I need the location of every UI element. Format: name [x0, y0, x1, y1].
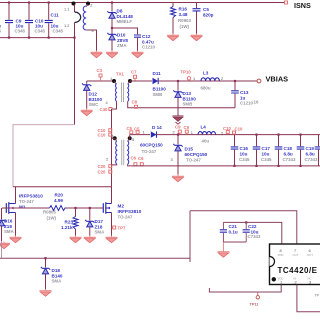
- svg-text:L3: L3: [203, 71, 209, 76]
- svg-text:D13: D13: [183, 91, 192, 96]
- svg-text:C6: C6: [131, 156, 137, 161]
- svg-text:C9: C9: [184, 125, 190, 130]
- svg-text:D15: D15: [185, 147, 194, 152]
- diode D15: [171, 134, 208, 166]
- svg-text:C1210: C1210: [240, 101, 253, 106]
- ground under D18: [40, 289, 52, 296]
- svg-text:C345: C345: [15, 29, 26, 34]
- capacitor C17: [253, 134, 272, 167]
- svg-text:2: 2: [90, 3, 92, 8]
- svg-text:680u: 680u: [201, 86, 211, 91]
- svg-text:16: 16: [254, 100, 259, 105]
- resistor R23: [61, 207, 78, 236]
- capacitor C18: [275, 134, 296, 167]
- svg-text:OUT: OUT: [293, 253, 299, 257]
- wire driver vdd rail: [223, 222, 281, 244]
- transformer TX2: [106, 133, 134, 165]
- wire driver out rail: [190, 211, 297, 244]
- op-amp U1 TC4420 driver: [270, 244, 320, 285]
- junction dots on rails: [8, 1, 76, 38]
- svg-text:TC4420/E: TC4420/E: [278, 266, 318, 275]
- node D8/D10 junction: [111, 1, 113, 29]
- svg-text:SMB: SMB: [183, 102, 193, 107]
- svg-text:3: 3: [309, 280, 311, 285]
- svg-text:ISNS: ISNS: [294, 1, 311, 10]
- wire cap ground tie: [223, 241, 246, 243]
- transformer TX1: [106, 72, 133, 106]
- svg-text:C3: C3: [97, 68, 103, 73]
- svg-text:1: 1: [110, 76, 112, 81]
- wire output bottom rail: [128, 164, 320, 166]
- svg-text:C6: C6: [138, 156, 144, 161]
- svg-text:D 14: D 14: [152, 125, 162, 130]
- node TP11 test point: [250, 292, 260, 307]
- node TP10 test point: [181, 70, 196, 82]
- ground under D13: [173, 108, 184, 124]
- capacitor C12: [134, 34, 155, 51]
- svg-text:D12: D12: [89, 92, 98, 97]
- svg-text:C345: C345: [261, 157, 272, 162]
- capacitor C16: [231, 135, 250, 167]
- capacitor C9: [5, 3, 26, 38]
- svg-text:2: 2: [221, 76, 223, 81]
- capacitor C19: [297, 134, 318, 167]
- node VBIAS port: [257, 75, 288, 84]
- svg-text:C5: C5: [127, 126, 133, 131]
- wire D11 to VBIAS: [158, 80, 257, 82]
- capacitor C5: [193, 3, 214, 34]
- capacitor C10: [25, 3, 46, 38]
- svg-text:C21: C21: [229, 224, 238, 229]
- node ISNS port: [285, 1, 311, 10]
- svg-text:C17: C17: [262, 146, 271, 151]
- svg-text:R20: R20: [55, 193, 64, 198]
- svg-text:R16: R16: [179, 7, 188, 12]
- svg-text:C5: C5: [203, 7, 209, 12]
- svg-text:C10: C10: [235, 127, 243, 132]
- svg-text:R0903: R0903: [178, 18, 191, 23]
- svg-text:C19: C19: [306, 146, 315, 151]
- node C3 test point: [97, 68, 103, 81]
- diode D14: [140, 125, 175, 154]
- svg-text:C7343: C7343: [248, 234, 261, 239]
- node C10 output test points: [223, 126, 243, 135]
- svg-text:5: 5: [132, 137, 134, 142]
- svg-text:10u: 10u: [240, 151, 248, 156]
- svg-text:2: 2: [295, 280, 297, 285]
- wire drive bus bottom: [0, 257, 190, 259]
- wire top input rail: [0, 2, 285, 4]
- svg-text:SMC: SMC: [89, 102, 100, 107]
- svg-text:60CPQ150: 60CPQ150: [140, 143, 163, 148]
- svg-text:C7343: C7343: [283, 157, 296, 162]
- svg-text:VDD: VDD: [278, 253, 284, 257]
- wire TX2 pin2 to bus: [112, 163, 117, 166]
- wire to C12: [112, 28, 138, 34]
- diode D10: [107, 28, 128, 51]
- resistor R16: [171, 3, 192, 34]
- transistor M2: [103, 187, 141, 220]
- svg-text:1.21k: 1.21k: [61, 225, 73, 230]
- wire pin1 vdd stub: [209, 285, 281, 293]
- wire TX1 secondary bottom: [128, 102, 235, 108]
- inductor L4: [191, 125, 223, 144]
- svg-text:M1: M1: [19, 205, 26, 210]
- svg-text:C12: C12: [142, 34, 151, 39]
- node C5 test points: [127, 126, 141, 134]
- wire gate drive: [2, 207, 103, 209]
- svg-text:1.2: 1.2: [64, 23, 69, 28]
- svg-text:TO-247: TO-247: [19, 199, 34, 204]
- wire bias top rail: [130, 80, 152, 82]
- svg-text:IRFPS3810: IRFPS3810: [118, 209, 142, 214]
- svg-text:C20: C20: [98, 169, 106, 174]
- svg-text:TX1: TX1: [116, 72, 124, 77]
- svg-text:OUT: OUT: [307, 253, 313, 257]
- node C20 test points: [98, 164, 112, 174]
- svg-text:SMB: SMB: [153, 92, 163, 97]
- wire input loop to M1 drain: [13, 125, 75, 187]
- svg-text:TP: TP: [315, 294, 320, 298]
- svg-text:C40: C40: [100, 107, 108, 112]
- svg-text:60CPQ150: 60CPQ150: [185, 152, 208, 157]
- svg-text:C22: C22: [248, 224, 257, 229]
- svg-text:C13: C13: [240, 90, 249, 95]
- svg-text:IRFPS3810: IRFPS3810: [19, 194, 43, 199]
- svg-text:VBIAS: VBIAS: [266, 75, 289, 84]
- svg-text:SMA: SMA: [4, 229, 15, 234]
- ground under R23: [70, 236, 82, 243]
- svg-text:3: 3: [171, 157, 173, 162]
- svg-text:C10: C10: [223, 126, 231, 131]
- wire TX1 pin4 to C40: [112, 102, 117, 110]
- wire pin2 in stub: [297, 285, 320, 312]
- diode D13: [173, 80, 196, 108]
- svg-text:SMA: SMA: [52, 279, 63, 284]
- svg-text:D17: D17: [95, 219, 104, 224]
- svg-text:C7343: C7343: [305, 157, 318, 162]
- capacitor C22: [243, 221, 261, 242]
- svg-text:C1210: C1210: [142, 45, 155, 50]
- svg-text:TO-247: TO-247: [118, 215, 133, 220]
- svg-text:10u: 10u: [262, 151, 270, 156]
- wire riser to driver: [189, 211, 191, 262]
- svg-text:C20: C20: [98, 164, 106, 169]
- svg-text:TP10: TP10: [181, 70, 192, 75]
- ground under M2: [106, 236, 118, 243]
- wire drain rail: [13, 186, 112, 188]
- wire TX1 primary feed: [87, 80, 114, 82]
- svg-text:D18: D18: [52, 268, 61, 273]
- svg-text:1: 1: [193, 76, 195, 81]
- svg-text:1: 1: [112, 133, 114, 138]
- diode D11: [153, 71, 167, 97]
- ground under C12: [132, 51, 144, 58]
- svg-text:C345: C345: [239, 157, 250, 162]
- node C7 test point: [131, 70, 137, 82]
- wire primary bus: [111, 109, 113, 187]
- svg-text:M2: M2: [118, 204, 125, 209]
- svg-text:2: 2: [106, 157, 108, 162]
- svg-text:D16: D16: [4, 219, 13, 224]
- diode D18: [41, 257, 63, 289]
- svg-text:2: 2: [221, 130, 223, 135]
- svg-text:C7: C7: [131, 70, 137, 75]
- svg-text:4.99: 4.99: [54, 198, 63, 203]
- svg-text:6.8u: 6.8u: [306, 151, 315, 156]
- wire TX2 secondary to D14: [130, 134, 150, 136]
- svg-text:D8: D8: [117, 9, 123, 14]
- transistor M1: [2, 187, 43, 214]
- node C6 test points: [131, 156, 145, 166]
- ground under C5: [191, 34, 203, 41]
- diode D8: [107, 3, 133, 29]
- svg-text:6.8u: 6.8u: [284, 151, 293, 156]
- wire output rail: [157, 134, 320, 136]
- svg-text:MMELF: MMELF: [117, 19, 133, 24]
- node C10 test points upper: [98, 128, 112, 137]
- svg-text:2: 2: [173, 130, 175, 135]
- ground under M1: [10, 236, 22, 243]
- resistor R20: [43, 193, 66, 221]
- inductor L3: [201, 71, 224, 91]
- wire cap bank bottom rail: [0, 37, 75, 39]
- ground under D16: [0, 242, 10, 249]
- svg-text:B1100: B1100: [153, 87, 167, 92]
- diode D16: [0, 208, 15, 241]
- ground under D15: [172, 166, 184, 182]
- capacitor C20 edge: [315, 135, 320, 166]
- ground under R16: [167, 34, 179, 41]
- wire M2 source: [111, 213, 113, 236]
- svg-text:R0805: R0805: [43, 210, 56, 215]
- svg-text:D10: D10: [117, 33, 126, 38]
- ground under D12: [81, 109, 93, 116]
- transformer T1 current sense: [64, 2, 97, 51]
- wire input drop: [74, 23, 76, 125]
- ground under T1 secondary: [91, 51, 103, 58]
- capacitor C8 label fragment at left edge: [0, 24, 1, 34]
- node C9 test points: [175, 125, 190, 135]
- svg-text:C11: C11: [51, 13, 60, 18]
- wire M1 source: [15, 213, 17, 236]
- svg-text:D11: D11: [153, 71, 162, 76]
- wire D16 to drive bus: [1, 241, 3, 258]
- node TP7 test point: [112, 226, 126, 231]
- svg-text:1.1: 1.1: [64, 7, 69, 12]
- svg-text:TP7: TP7: [118, 226, 126, 231]
- svg-text:1: 1: [280, 280, 282, 285]
- svg-text:C16: C16: [240, 146, 249, 151]
- svg-text:C8: C8: [132, 100, 138, 105]
- svg-text:TO-247: TO-247: [186, 158, 201, 163]
- diode D17: [85, 207, 105, 236]
- svg-text:TO-247: TO-247: [142, 149, 157, 154]
- svg-text:SMA: SMA: [95, 230, 106, 235]
- svg-text:C18: C18: [284, 146, 293, 151]
- node C8 test point: [132, 100, 138, 109]
- svg-text:40u: 40u: [202, 139, 210, 144]
- capacitor C11: [45, 3, 64, 38]
- node grid ref 16: [254, 100, 259, 105]
- svg-text:820p: 820p: [203, 12, 214, 17]
- ground under D10: [106, 51, 118, 58]
- capacitor C21: [220, 222, 238, 242]
- svg-text:C10: C10: [98, 132, 106, 137]
- svg-text:ZMA: ZMA: [117, 43, 127, 48]
- node TP edge fragment: [315, 294, 320, 298]
- svg-text:C345: C345: [53, 29, 64, 34]
- svg-text:L4: L4: [201, 125, 207, 130]
- node C40 test point: [100, 107, 112, 112]
- svg-text:C9: C9: [175, 125, 181, 130]
- svg-text:1: 1: [143, 130, 145, 135]
- ground under D17: [84, 236, 96, 243]
- diode D12: [82, 81, 102, 109]
- svg-text:(1W): (1W): [47, 216, 57, 221]
- capacitor C13: [231, 80, 253, 108]
- svg-text:C345: C345: [35, 29, 46, 34]
- ground under C21: [217, 242, 229, 257]
- svg-text:(1W): (1W): [180, 24, 190, 29]
- svg-text:3.48: 3.48: [179, 12, 188, 17]
- svg-text:TP11: TP11: [250, 303, 259, 307]
- svg-text:C5: C5: [134, 127, 140, 132]
- svg-text:R23: R23: [65, 220, 74, 225]
- svg-text:0.1u: 0.1u: [229, 229, 238, 234]
- svg-text:1: 1: [191, 130, 193, 135]
